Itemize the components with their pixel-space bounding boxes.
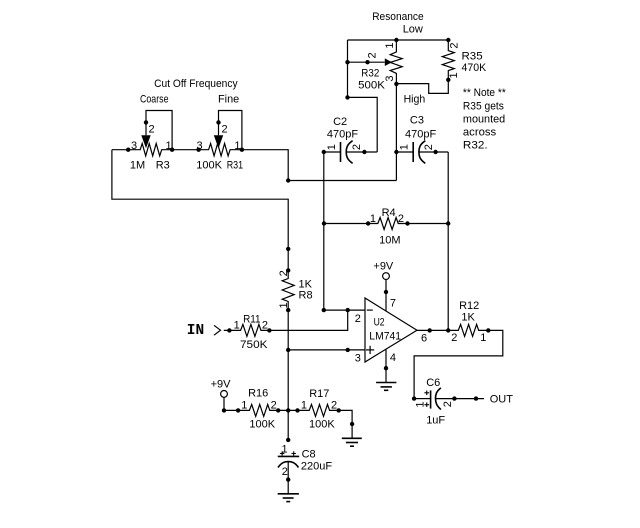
- svg-text:100K: 100K: [309, 419, 335, 431]
- svg-text:100K: 100K: [196, 160, 222, 172]
- svg-text:1: 1: [166, 140, 172, 152]
- svg-text:1: 1: [234, 319, 240, 331]
- svg-text:IN: IN: [187, 323, 204, 339]
- svg-text:1: 1: [241, 399, 247, 411]
- svg-text:R12: R12: [459, 300, 479, 312]
- svg-text:R16: R16: [248, 387, 268, 399]
- svg-text:2: 2: [423, 144, 435, 150]
- svg-text:10M: 10M: [379, 234, 400, 246]
- svg-text:2: 2: [278, 270, 290, 276]
- svg-text:+9V: +9V: [211, 379, 232, 391]
- svg-text:2: 2: [355, 313, 361, 325]
- svg-text:1: 1: [384, 43, 396, 49]
- svg-text:500K: 500K: [358, 80, 385, 92]
- svg-text:1: 1: [278, 302, 290, 308]
- svg-text:R32: R32: [361, 68, 379, 80]
- svg-text:470pF: 470pF: [405, 129, 436, 141]
- svg-text:100K: 100K: [249, 419, 275, 431]
- svg-text:1M: 1M: [130, 160, 145, 172]
- svg-text:1: 1: [234, 140, 240, 152]
- svg-text:R3: R3: [156, 160, 170, 172]
- svg-text:2: 2: [222, 123, 228, 135]
- svg-text:3: 3: [355, 352, 361, 364]
- svg-text:R35 gets: R35 gets: [463, 100, 504, 112]
- svg-text:C8: C8: [302, 449, 316, 461]
- svg-text:** Note **: ** Note **: [463, 87, 507, 99]
- svg-text:4: 4: [390, 352, 396, 364]
- svg-text:2: 2: [449, 43, 461, 49]
- svg-text:R11: R11: [243, 313, 261, 325]
- svg-text:2: 2: [351, 144, 363, 150]
- svg-text:220uF: 220uF: [301, 461, 332, 473]
- svg-text:OUT: OUT: [490, 394, 514, 406]
- svg-text:High: High: [404, 93, 426, 105]
- svg-text:1K: 1K: [299, 278, 313, 290]
- svg-text:7: 7: [390, 298, 396, 310]
- svg-text:750K: 750K: [240, 339, 268, 351]
- svg-text:+9V: +9V: [373, 260, 394, 272]
- svg-text:1: 1: [301, 400, 307, 412]
- svg-text:R31: R31: [227, 160, 243, 172]
- svg-text:2: 2: [262, 319, 268, 331]
- svg-text:C3: C3: [410, 115, 424, 127]
- svg-text:470pF: 470pF: [327, 129, 358, 141]
- svg-text:2: 2: [451, 332, 457, 344]
- svg-text:across: across: [463, 127, 497, 139]
- svg-text:2: 2: [331, 400, 337, 412]
- svg-text:2: 2: [149, 123, 155, 135]
- svg-text:R35: R35: [462, 50, 483, 62]
- svg-text:1: 1: [399, 144, 411, 150]
- svg-text:C2: C2: [333, 116, 347, 128]
- svg-text:R4: R4: [382, 207, 396, 219]
- svg-text:Low: Low: [403, 24, 423, 36]
- svg-text:1K: 1K: [461, 312, 475, 324]
- svg-text:6: 6: [421, 333, 427, 345]
- svg-text:1: 1: [326, 144, 338, 150]
- svg-text:1: 1: [480, 332, 486, 344]
- svg-text:1: 1: [448, 72, 460, 78]
- svg-text:3: 3: [131, 140, 137, 152]
- svg-text:3: 3: [197, 140, 203, 152]
- svg-text:U2: U2: [374, 316, 385, 328]
- svg-text:1uF: 1uF: [426, 415, 445, 427]
- svg-text:Cut Off Frequency: Cut Off Frequency: [154, 78, 238, 90]
- svg-text:2: 2: [366, 52, 378, 58]
- svg-text:3: 3: [384, 76, 396, 82]
- svg-text:2: 2: [442, 401, 454, 407]
- svg-text:2: 2: [398, 213, 404, 225]
- svg-text:R17: R17: [309, 388, 329, 400]
- svg-text:R32.: R32.: [463, 140, 488, 152]
- svg-text:2: 2: [282, 466, 288, 478]
- svg-text:C6: C6: [426, 377, 440, 389]
- svg-text:LM741: LM741: [369, 330, 401, 342]
- svg-text:Coarse: Coarse: [140, 93, 169, 105]
- svg-text:Fine: Fine: [218, 93, 239, 105]
- svg-text:2: 2: [271, 399, 277, 411]
- svg-text:470K: 470K: [462, 62, 487, 74]
- svg-text:mounted: mounted: [463, 113, 505, 125]
- svg-text:1: 1: [370, 213, 376, 225]
- svg-text:R8: R8: [299, 290, 313, 302]
- svg-text:Resonance: Resonance: [372, 11, 424, 23]
